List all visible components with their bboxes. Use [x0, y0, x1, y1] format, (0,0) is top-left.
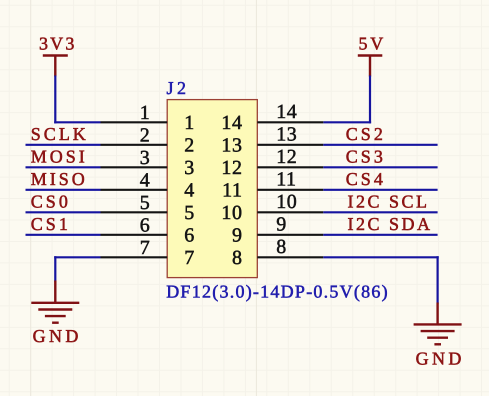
- svg-text:9: 9: [232, 225, 243, 247]
- svg-text:GND: GND: [33, 326, 82, 346]
- svg-text:14: 14: [221, 112, 242, 134]
- pin 7 of J2 (left side): [101, 237, 195, 269]
- power port 5V: [358, 34, 386, 77]
- pin 13 of J2 (right side): [221, 124, 323, 157]
- pin 4 of J2 (left side): [101, 169, 195, 201]
- svg-text:4: 4: [140, 169, 150, 191]
- connector J2 body: [167, 100, 257, 278]
- pin 3 of J2 (left side): [101, 147, 195, 179]
- pin 12 of J2 (right side): [221, 146, 323, 179]
- svg-text:DF12(3.0)-14DP-0.5V(86): DF12(3.0)-14DP-0.5V(86): [166, 281, 389, 301]
- svg-text:7: 7: [140, 237, 150, 259]
- wire 3V3 to pin 1: [54, 76, 100, 124]
- ground GND (left): [31, 281, 82, 347]
- svg-text:10: 10: [221, 202, 242, 224]
- wire CS0 to pin 5: [26, 211, 101, 213]
- svg-text:13: 13: [221, 135, 242, 157]
- svg-text:CS2: CS2: [346, 124, 386, 144]
- svg-text:9: 9: [276, 214, 287, 236]
- svg-text:SCLK: SCLK: [31, 124, 89, 144]
- svg-text:14: 14: [276, 101, 297, 123]
- svg-text:6: 6: [140, 214, 150, 236]
- wire CS4 to pin 11: [323, 189, 437, 191]
- ground GND (right): [414, 303, 465, 369]
- svg-text:1: 1: [184, 112, 194, 134]
- wire I2C SCL to pin 10: [323, 211, 437, 213]
- svg-text:3: 3: [184, 157, 194, 179]
- wire SCLK to pin 2: [26, 144, 101, 146]
- svg-text:11: 11: [276, 169, 296, 191]
- pin 9 of J2 (right side): [232, 214, 323, 247]
- svg-text:13: 13: [276, 124, 297, 146]
- svg-text:I2C SCL: I2C SCL: [348, 192, 430, 212]
- svg-text:MISO: MISO: [31, 169, 88, 189]
- svg-text:3: 3: [140, 147, 150, 169]
- wire I2C SDA to pin 9: [323, 234, 437, 236]
- pin 1 of J2 (left side): [101, 102, 195, 134]
- svg-text:2: 2: [184, 135, 194, 157]
- svg-text:MOSI: MOSI: [31, 147, 88, 167]
- svg-text:11: 11: [222, 180, 242, 202]
- svg-text:6: 6: [184, 225, 194, 247]
- svg-text:12: 12: [221, 157, 242, 179]
- svg-text:1: 1: [140, 102, 150, 124]
- wire 5V to pin 14: [323, 76, 371, 124]
- wire pin 7 to GND (left): [54, 256, 100, 281]
- wire pin 8 to GND (right): [323, 256, 438, 303]
- svg-text:10: 10: [276, 191, 297, 213]
- wire CS3 to pin 12: [323, 166, 437, 168]
- pin 6 of J2 (left side): [101, 214, 195, 246]
- svg-text:CS0: CS0: [31, 192, 71, 212]
- pin 2 of J2 (left side): [101, 124, 195, 156]
- svg-text:7: 7: [184, 247, 194, 269]
- power port 3V3: [39, 34, 77, 77]
- pin 11 of J2 (right side): [222, 169, 323, 202]
- svg-text:5: 5: [184, 202, 194, 224]
- svg-text:3V3: 3V3: [39, 34, 77, 54]
- wire CS2 to pin 13: [323, 144, 437, 146]
- svg-text:8: 8: [276, 236, 287, 258]
- pin 5 of J2 (left side): [101, 192, 195, 224]
- svg-text:5: 5: [140, 192, 150, 214]
- pin 8 of J2 (right side): [232, 236, 323, 269]
- svg-text:I2C SDA: I2C SDA: [348, 214, 433, 234]
- pin 10 of J2 (right side): [221, 191, 323, 224]
- svg-text:8: 8: [232, 247, 243, 269]
- svg-text:CS3: CS3: [346, 147, 386, 167]
- svg-text:4: 4: [184, 180, 194, 202]
- svg-text:2: 2: [140, 124, 150, 146]
- svg-text:12: 12: [276, 146, 297, 168]
- svg-text:CS4: CS4: [346, 169, 386, 189]
- svg-text:5V: 5V: [358, 34, 386, 54]
- wire MOSI to pin 3: [26, 166, 101, 168]
- svg-text:J2: J2: [167, 78, 190, 98]
- wire MISO to pin 4: [26, 189, 101, 191]
- pin 14 of J2 (right side): [221, 101, 323, 134]
- svg-text:CS1: CS1: [31, 214, 71, 234]
- svg-text:GND: GND: [416, 349, 465, 369]
- wire CS1 to pin 6: [26, 234, 101, 236]
